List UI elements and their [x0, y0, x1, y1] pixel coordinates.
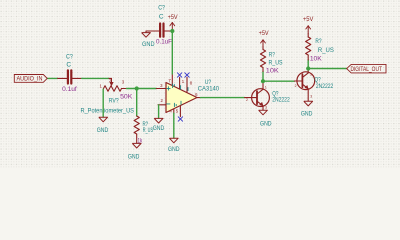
- svg-text:2: 2: [295, 84, 297, 88]
- ground (R3): [132, 143, 141, 148]
- no-connect pin 8: [185, 73, 189, 77]
- svg-text:DIGITAL_OUT: DIGITAL_OUT: [350, 66, 382, 73]
- wire: Q1 collector to Q2 base: [263, 80, 294, 82]
- svg-text:10K: 10K: [310, 55, 323, 62]
- power +5V (R2): [307, 26, 309, 34]
- svg-text:GND: GND: [142, 41, 155, 48]
- junction node A: [135, 86, 139, 90]
- svg-text:+5V: +5V: [168, 14, 179, 21]
- svg-text:0.1uF: 0.1uF: [156, 38, 172, 45]
- capacitor C1: [58, 77, 67, 79]
- svg-text:3: 3: [265, 105, 267, 109]
- svg-text:GND: GND: [260, 120, 272, 127]
- svg-text:1: 1: [310, 73, 312, 77]
- svg-text:GND: GND: [97, 127, 109, 134]
- power +5V (R1): [262, 40, 264, 46]
- capacitor C2 decoupling: [146, 31, 159, 33]
- wire: opamp pin4 to ground: [173, 113, 175, 138]
- global label AUDIO_IN: [14, 75, 47, 83]
- svg-text:C?: C?: [158, 5, 165, 12]
- svg-text:R_Potentiometer_US: R_Potentiometer_US: [80, 108, 134, 115]
- junction Q2 collector: [306, 66, 310, 70]
- svg-text:3: 3: [310, 95, 312, 99]
- svg-text:2: 2: [246, 98, 248, 102]
- svg-text:C: C: [159, 14, 164, 21]
- no-connect pin 1: [177, 73, 181, 77]
- svg-text:C?: C?: [66, 54, 73, 61]
- svg-text:R_US: R_US: [318, 47, 335, 54]
- junction Q1 collector: [261, 79, 265, 83]
- wire: pot pin3 to junction to opamp: [127, 88, 157, 90]
- wire: +5V junction down to opamp pin7: [171, 31, 173, 74]
- wire: C1 to potentiometer wiper: [82, 77, 109, 79]
- svg-text:2N2222: 2N2222: [316, 83, 334, 90]
- resistor R3 1k: [134, 116, 139, 134]
- wire: opamp output to Q1 base: [201, 97, 245, 99]
- ground (Q1): [259, 110, 268, 115]
- svg-text:GND: GND: [168, 146, 180, 153]
- transistor Q2 2N2222: [297, 72, 315, 90]
- svg-text:C: C: [66, 62, 71, 69]
- svg-text:1: 1: [265, 85, 267, 89]
- op-amp U1 pins: [156, 88, 166, 90]
- svg-text:CA3140: CA3140: [198, 86, 220, 93]
- junction at C2/+5V: [170, 29, 174, 33]
- potentiometer RV1: [111, 78, 113, 82]
- no-connect pin 5: [178, 117, 182, 121]
- wire: pot pin1 to ground: [102, 89, 104, 117]
- svg-text:GND: GND: [153, 125, 165, 132]
- global label DIGITAL_OUT: [347, 64, 386, 73]
- wire: opamp pin2 to ground: [158, 105, 160, 118]
- svg-text:50K: 50K: [120, 94, 133, 101]
- svg-text:AUDIO_IN: AUDIO_IN: [17, 76, 43, 83]
- wire: junction down to R3: [136, 89, 138, 117]
- resistor R1 10K: [262, 68, 264, 72]
- ground (opamp pin2): [154, 118, 163, 123]
- power +5V (C2): [171, 23, 173, 30]
- op-amp U1 body: [166, 83, 197, 113]
- svg-text:+5V: +5V: [259, 30, 270, 37]
- svg-text:GND: GND: [128, 153, 140, 160]
- ground (Q2): [304, 101, 313, 106]
- svg-text:0.1uf: 0.1uf: [62, 86, 77, 93]
- svg-text:R?: R?: [315, 38, 321, 45]
- svg-text:10K: 10K: [266, 67, 280, 74]
- ground (opamp pin4): [169, 138, 178, 143]
- svg-text:2N2222: 2N2222: [272, 97, 290, 104]
- wire: Q2 collector to DIGITAL_OUT: [308, 68, 347, 70]
- resistor R2 10K: [307, 55, 309, 60]
- svg-text:R?: R?: [269, 52, 275, 59]
- svg-text:R_US: R_US: [269, 59, 284, 66]
- ground (C2): [142, 33, 151, 38]
- ground (pot): [99, 117, 108, 122]
- transistor Q1 2N2222: [252, 89, 270, 107]
- svg-text:+5V: +5V: [303, 16, 314, 23]
- svg-text:RV?: RV?: [109, 98, 119, 105]
- svg-text:GND: GND: [301, 110, 313, 117]
- wire: AUDIO_IN to C1: [47, 77, 57, 79]
